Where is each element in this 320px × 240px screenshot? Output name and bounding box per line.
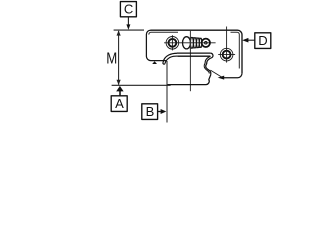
- centerline horizontal right hole: [218, 54, 235, 56]
- centerline vertical right hole: [226, 27, 228, 63]
- grease nipple: thread crests: [191, 37, 194, 48]
- svg-text:M: M: [106, 51, 117, 68]
- label A box: [111, 96, 127, 112]
- block outline left edge: [146, 30, 166, 60]
- block bottom right edge: [221, 73, 242, 78]
- svg-text:C: C: [124, 2, 133, 17]
- rail top ledge right cap: [210, 53, 213, 58]
- svg-text:B: B: [146, 104, 155, 119]
- centerline vertical rail bolt hole: [189, 31, 191, 91]
- seal lip hook tip: [163, 62, 165, 64]
- block outer outline left part: [151, 30, 243, 73]
- cutaway break diagonal: [210, 70, 222, 77]
- label C leader: [127, 17, 129, 26]
- grease nipple: base ball: [183, 37, 191, 49]
- leader arrow at groove: [218, 76, 225, 80]
- rail left face / B extension line: [166, 61, 168, 123]
- label D box: [255, 33, 271, 49]
- grease nipple: tip ball: [202, 39, 210, 47]
- dimension M top arrowhead: [117, 30, 121, 35]
- dimension M bottom arrowhead: [117, 80, 121, 85]
- label B leader: [158, 111, 162, 113]
- label A leader: [119, 91, 121, 96]
- label C arrowhead: [126, 24, 130, 29]
- counterbore hole right (circle with crosshair): [220, 48, 233, 61]
- svg-text:D: D: [258, 33, 267, 48]
- label C box: [120, 2, 136, 17]
- label B arrowhead: [161, 109, 167, 114]
- centerline horizontal through left hole and nipple: [164, 42, 216, 44]
- centerline vertical left hole: [171, 35, 173, 50]
- seal lip hook left inner: [165, 56, 178, 64]
- label D arrowhead: [242, 38, 248, 43]
- wire top extension line: [114, 29, 144, 31]
- label B box: [142, 104, 158, 120]
- rail top ledge lines: [177, 53, 210, 56]
- rail groove right outer curve: [206, 58, 212, 75]
- block inner seam line: [149, 32, 240, 68]
- wire bottom extension line: [112, 84, 171, 86]
- seal lip hook left outer: [163, 53, 177, 62]
- svg-text:A: A: [115, 96, 124, 111]
- label D leader: [248, 39, 255, 41]
- dimension M line: [118, 31, 120, 85]
- rail right face and bottom corner: [167, 75, 210, 85]
- grease nipple: outline top and bottom: [190, 37, 202, 48]
- rail groove right inner curve: [204, 56, 210, 73]
- label A arrowhead: [116, 86, 123, 92]
- small tick arrow under block bottom edge: [152, 61, 157, 64]
- counterbore hole left (circle with crosshair): [166, 37, 179, 50]
